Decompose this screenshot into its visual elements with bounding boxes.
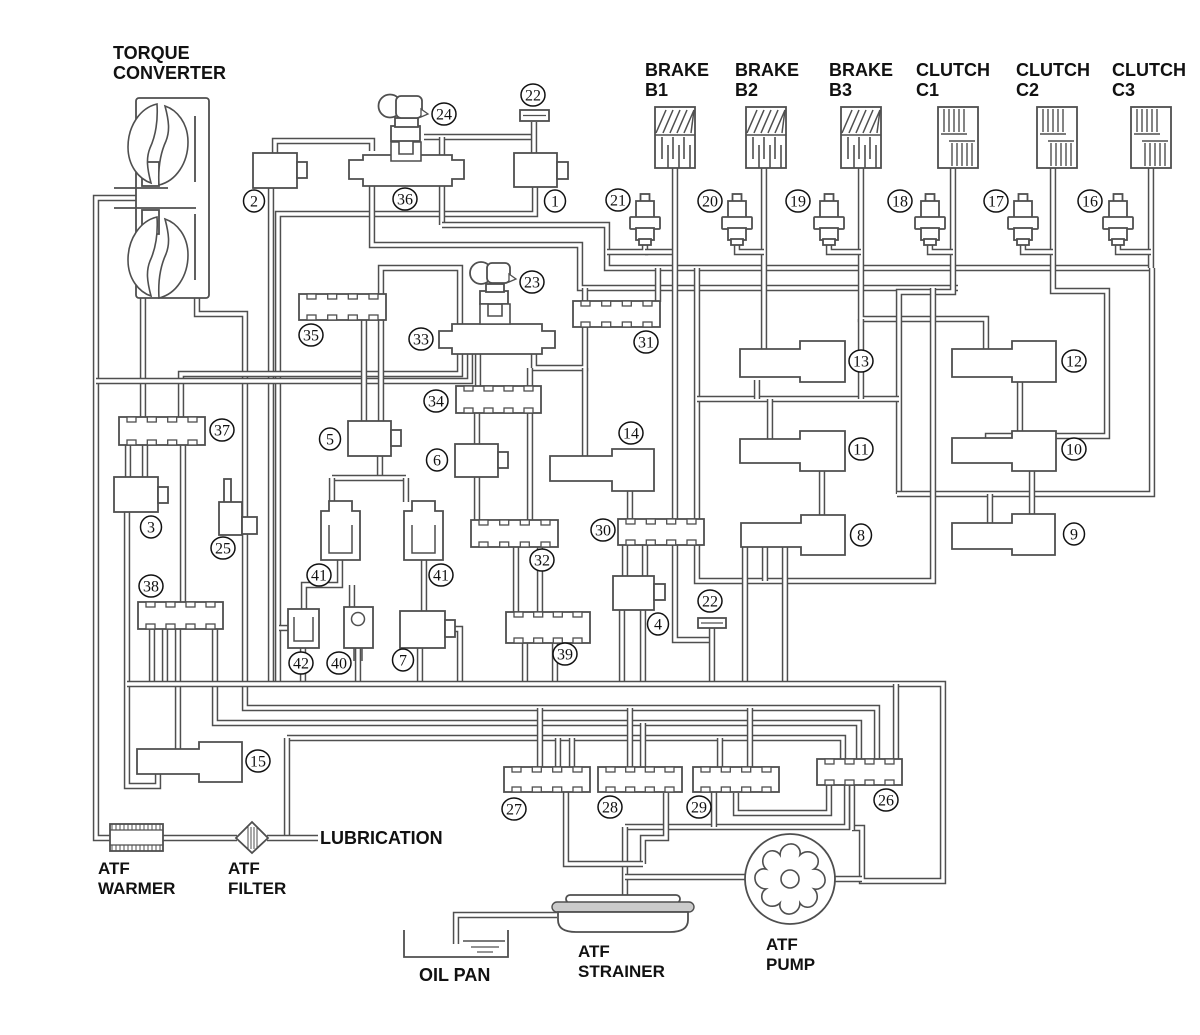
svg-text:CLUTCH: CLUTCH bbox=[1016, 60, 1090, 80]
wire valve 28 to strainer line bbox=[643, 793, 666, 864]
valve 10 bbox=[952, 431, 1056, 471]
label 7 bbox=[393, 649, 414, 671]
svg-text:C2: C2 bbox=[1016, 80, 1039, 100]
svg-text:12: 12 bbox=[1066, 354, 1082, 371]
svg-text:32: 32 bbox=[534, 553, 550, 570]
wire bottom bus and pump loop bbox=[127, 684, 943, 881]
svg-text:28: 28 bbox=[602, 800, 618, 817]
wire valve 35 to valve 5 (b) bbox=[378, 320, 384, 422]
wire valve 38 to bottom bus (a) bbox=[149, 628, 155, 684]
wire valve 30 to orifice 22 bbox=[675, 544, 712, 640]
wire valve 39 to bottom bus (a) bbox=[522, 642, 528, 684]
wire bus to valve 27 (b) bbox=[555, 738, 561, 768]
wire bus to valve 26 (right) bbox=[893, 684, 899, 760]
wire valve 7 to bottom bus bbox=[417, 647, 423, 684]
wire bus to valve 29 (a) bbox=[717, 738, 723, 768]
svg-text:ATF: ATF bbox=[766, 935, 798, 954]
label 1 bbox=[545, 190, 566, 212]
svg-text:35: 35 bbox=[303, 328, 319, 345]
clutch C3 pack bbox=[1131, 107, 1171, 168]
wire valve 4 to bottom bus (b) bbox=[640, 609, 646, 684]
wire valve 35 to valve 37 bbox=[181, 268, 460, 418]
valve 6 bbox=[455, 444, 498, 477]
svg-text:6: 6 bbox=[433, 453, 441, 470]
orifice 22 (top) bbox=[520, 110, 549, 121]
wire valve 38 to bottom bus (b) bbox=[162, 628, 168, 684]
label 11 bbox=[849, 438, 873, 460]
svg-text:10: 10 bbox=[1066, 442, 1082, 459]
svg-text:CLUTCH: CLUTCH bbox=[1112, 60, 1186, 80]
valve 7 bbox=[400, 611, 445, 648]
svg-text:22: 22 bbox=[702, 594, 718, 611]
valve 27 bbox=[504, 767, 590, 792]
wire check valve 19 stub bbox=[829, 244, 861, 252]
wire valve 38 to valve 26 (bus C) bbox=[215, 628, 859, 760]
svg-text:31: 31 bbox=[638, 335, 654, 352]
svg-text:23: 23 bbox=[524, 275, 540, 292]
wire feed accumulator 41 right bbox=[403, 478, 409, 502]
wire solenoid 24 branch down bbox=[439, 137, 445, 225]
label 5 bbox=[320, 428, 341, 450]
wire valve 10 to valve 9 bbox=[1029, 470, 1035, 515]
wire bus to valve 28 (b) bbox=[640, 723, 646, 768]
wire check valve 17 stub bbox=[1023, 244, 1053, 252]
wire pressure bus to valve 31 (right) bbox=[655, 268, 661, 302]
wire valve 37 to valve 3 (a) bbox=[125, 444, 131, 478]
valve 4 bbox=[613, 576, 654, 610]
wire valve 6 to valve 32 bbox=[474, 476, 480, 521]
label 39 bbox=[553, 643, 577, 665]
svg-text:FILTER: FILTER bbox=[228, 879, 286, 898]
wire valve 31 junction to valve 14 bbox=[582, 368, 588, 457]
svg-text:15: 15 bbox=[250, 754, 266, 771]
wire strainer to pump bbox=[625, 874, 747, 880]
wire ATF filter to lubrication bbox=[267, 835, 318, 841]
label 19 bbox=[786, 190, 810, 212]
wire check valve 18 stub bbox=[930, 244, 953, 252]
wire valve 8 to bottom bus bbox=[742, 546, 748, 684]
wire torque-converter outlet to valve 26 (bus) bbox=[197, 297, 877, 760]
label 4 bbox=[648, 613, 669, 635]
label 10 bbox=[1062, 438, 1086, 460]
wire ATF warmer to filter bbox=[162, 835, 237, 841]
valve 1 bbox=[514, 153, 557, 187]
label 8 bbox=[851, 524, 872, 546]
svg-text:3: 3 bbox=[147, 520, 155, 537]
wire clutch C2 line bbox=[988, 166, 1107, 440]
wire check valve 21 stub bbox=[607, 244, 645, 252]
wire valve 26 to valve 29 bbox=[736, 784, 829, 813]
solenoid 24 bbox=[391, 126, 420, 141]
svg-text:2: 2 bbox=[250, 194, 258, 211]
brake B3 pack bbox=[841, 107, 881, 168]
valve 15 bbox=[137, 742, 242, 782]
wire valve 32 to valve 39 (a) bbox=[513, 546, 519, 613]
wire secondary bus to valve 31 (left) bbox=[582, 288, 588, 302]
svg-text:25: 25 bbox=[215, 541, 231, 558]
wire valve 34 to valve 6 bbox=[474, 412, 480, 445]
svg-text:30: 30 bbox=[595, 523, 611, 540]
label 22 bbox=[698, 590, 722, 612]
valve 36 bbox=[349, 155, 464, 186]
label 16 bbox=[1078, 190, 1102, 212]
valve 29 bbox=[693, 767, 779, 792]
ATF pump bbox=[745, 834, 835, 924]
label 30 bbox=[591, 519, 615, 541]
wire torque-converter outlet to valve 37 bbox=[140, 297, 146, 418]
label 42 bbox=[289, 652, 313, 674]
svg-text:BRAKE: BRAKE bbox=[645, 60, 709, 80]
label 2 bbox=[244, 190, 265, 212]
wire torque-converter to ATF warmer (left vertical) bbox=[96, 198, 148, 838]
svg-text:21: 21 bbox=[610, 193, 626, 210]
label 26 bbox=[874, 789, 898, 811]
svg-text:C3: C3 bbox=[1112, 80, 1135, 100]
label 34 bbox=[424, 390, 448, 412]
label 41 bbox=[307, 564, 331, 586]
svg-text:1: 1 bbox=[551, 194, 559, 211]
wire feed valve 9 bbox=[987, 494, 993, 524]
wire bus to valve 28 (a) bbox=[627, 708, 633, 768]
valve 32 bbox=[471, 520, 558, 547]
wire check valve 16 stub bbox=[1118, 244, 1151, 252]
accumulator 41 (left) bbox=[321, 501, 360, 560]
wire orifice 22 stem bbox=[531, 122, 537, 154]
svg-text:22: 22 bbox=[525, 88, 541, 105]
label 31 bbox=[634, 331, 658, 353]
valve 30 bbox=[618, 519, 704, 545]
wire valve 13 bottom stub bbox=[754, 380, 760, 399]
ATF warmer bbox=[110, 824, 163, 851]
wire valve 26 to pump bbox=[849, 784, 855, 830]
svg-text:16: 16 bbox=[1082, 194, 1098, 211]
orifice 22 (lower) bbox=[698, 618, 726, 628]
wire valve 12 to valve 10 bbox=[1017, 381, 1023, 432]
svg-text:18: 18 bbox=[892, 194, 908, 211]
wire valve 27 to strainer line bbox=[566, 792, 643, 864]
check valve 17 bbox=[1019, 194, 1028, 202]
valve 2 bbox=[253, 153, 297, 188]
wire feed accumulator 41 left bbox=[329, 478, 335, 502]
valve 26 bbox=[817, 759, 902, 785]
svg-text:WARMER: WARMER bbox=[98, 879, 175, 898]
svg-text:17: 17 bbox=[988, 194, 1004, 211]
valve 39 bbox=[506, 612, 590, 643]
svg-text:29: 29 bbox=[691, 800, 707, 817]
check valve 20 bbox=[733, 194, 742, 202]
check valve 18 bbox=[926, 194, 935, 202]
wire valve 30 to valve 4 (a) bbox=[622, 544, 628, 577]
wire bus to valve 27 (c) bbox=[569, 738, 575, 768]
label 25 bbox=[211, 537, 235, 559]
label 12 bbox=[1062, 350, 1086, 372]
svg-text:39: 39 bbox=[557, 647, 573, 664]
valve 40 bbox=[344, 607, 373, 648]
svg-text:ATF: ATF bbox=[98, 859, 130, 878]
label 29 bbox=[687, 796, 711, 818]
wire accumulator feed manifold bbox=[332, 475, 406, 481]
valve 3 bbox=[114, 477, 158, 512]
brake B1 pack bbox=[655, 107, 695, 168]
wire valve 30 to valve 4 (b) bbox=[642, 544, 648, 577]
label 41 bbox=[429, 564, 453, 586]
valve 13 bbox=[740, 341, 845, 382]
accumulator 41 (right) bbox=[404, 501, 443, 560]
ATF filter bbox=[236, 822, 268, 853]
label 20 bbox=[698, 190, 722, 212]
svg-text:26: 26 bbox=[878, 793, 894, 810]
svg-text:CONVERTER: CONVERTER bbox=[113, 63, 226, 83]
svg-text:9: 9 bbox=[1070, 527, 1078, 544]
label 21 bbox=[606, 189, 630, 211]
svg-text:19: 19 bbox=[790, 194, 806, 211]
label 40 bbox=[327, 652, 351, 674]
wire valve 38 to valve 15 bbox=[175, 628, 181, 750]
svg-text:11: 11 bbox=[853, 442, 868, 459]
wire valve 4 to bottom bus (a) bbox=[619, 609, 625, 684]
svg-text:24: 24 bbox=[436, 107, 452, 124]
valve 11 bbox=[740, 431, 845, 471]
wire bus to valve 27 (a) bbox=[537, 708, 543, 768]
label 33 bbox=[409, 328, 433, 350]
wire main line to pressure bus bbox=[442, 225, 1152, 268]
svg-text:CLUTCH: CLUTCH bbox=[916, 60, 990, 80]
label 18 bbox=[888, 190, 912, 212]
valve 12 bbox=[952, 341, 1056, 382]
label 24 bbox=[432, 103, 456, 125]
valve 37 bbox=[119, 417, 205, 445]
svg-text:STRAINER: STRAINER bbox=[578, 962, 665, 981]
wire valve 14 to valve 30 bbox=[627, 490, 633, 520]
wire valve 33 junction to valve 32 bbox=[527, 368, 533, 521]
wire accumulator 41 to valve 40 bbox=[349, 585, 355, 608]
label 13 bbox=[849, 350, 873, 372]
valve 38 bbox=[138, 602, 223, 629]
svg-text:8: 8 bbox=[857, 528, 865, 545]
svg-text:ATF: ATF bbox=[578, 942, 610, 961]
valve 35 bbox=[299, 294, 386, 320]
valve 42 bbox=[288, 609, 319, 648]
wire valve 37 to valve 38 bbox=[180, 444, 186, 603]
wire valve 29 to strainer line bbox=[711, 792, 717, 827]
svg-text:B2: B2 bbox=[735, 80, 758, 100]
wire oil pan to strainer bbox=[456, 915, 557, 944]
wire valve 5 to accumulators 41 bbox=[377, 455, 383, 478]
svg-text:4: 4 bbox=[654, 617, 662, 634]
wire valve 37 to valve 3 (b) bbox=[142, 444, 148, 478]
label 6 bbox=[427, 449, 448, 471]
valve 14 bbox=[550, 449, 654, 491]
wire valve 7 tab down bbox=[448, 629, 460, 684]
ATF strainer bbox=[566, 895, 680, 903]
wire brake B3 junction drop bbox=[858, 319, 864, 399]
wire brake B1 line to valve 30 bbox=[672, 166, 678, 520]
wire brake B3 line to valve 12 bbox=[861, 166, 986, 350]
wire bus to valve 29 (b) bbox=[747, 708, 753, 768]
check valve 21 bbox=[641, 194, 650, 202]
wire valve 1 down to bottom bus bbox=[278, 187, 535, 684]
svg-text:33: 33 bbox=[413, 332, 429, 349]
wire valve 42 to bottom bus bbox=[300, 647, 306, 684]
label 23 bbox=[520, 271, 544, 293]
label 28 bbox=[598, 796, 622, 818]
wire valve 32 to valve 39 (b) bbox=[537, 546, 543, 613]
wire valve 33 to valve 34 bbox=[475, 353, 481, 387]
wire clutch C3 line bbox=[1148, 166, 1154, 268]
wire clutch C3 to valve 9 bbox=[897, 268, 1152, 494]
wire lubrication bus to valve 26 bbox=[287, 738, 843, 760]
svg-text:PUMP: PUMP bbox=[766, 955, 815, 974]
svg-text:BRAKE: BRAKE bbox=[829, 60, 893, 80]
wire valve 8 to pump loop bbox=[782, 546, 788, 684]
wire clutch C1 line bbox=[899, 166, 953, 494]
svg-text:BRAKE: BRAKE bbox=[735, 60, 799, 80]
wire orifice 22 to bottom bus bbox=[709, 628, 715, 684]
label 36 bbox=[393, 188, 417, 210]
svg-text:7: 7 bbox=[399, 653, 407, 670]
wire valve 26 to strainer line bbox=[625, 784, 847, 827]
svg-text:C1: C1 bbox=[916, 80, 939, 100]
wire valve 3 to valve 15 bbox=[127, 511, 158, 786]
valve 25 bbox=[224, 479, 231, 503]
svg-text:13: 13 bbox=[853, 354, 869, 371]
svg-text:36: 36 bbox=[397, 192, 413, 209]
label 14 bbox=[619, 422, 643, 444]
wire valve 36 to secondary bus bbox=[372, 186, 958, 288]
svg-text:OIL PAN: OIL PAN bbox=[419, 965, 490, 985]
wire strainer stem bbox=[622, 827, 628, 897]
label 3 bbox=[141, 516, 162, 538]
wire pressure bus drop to valve 30 bbox=[694, 268, 700, 520]
svg-text:41: 41 bbox=[433, 568, 449, 585]
brake B2 pack bbox=[746, 107, 786, 168]
wire solenoid 24 to valve 22/1 bbox=[424, 134, 534, 140]
torque converter bbox=[136, 98, 209, 298]
wire valve 2 down to bottom bus bbox=[268, 187, 274, 684]
svg-text:41: 41 bbox=[311, 568, 327, 585]
svg-text:42: 42 bbox=[293, 656, 309, 673]
check valve 16 bbox=[1114, 194, 1123, 202]
oil pan bbox=[404, 930, 508, 957]
label 27 bbox=[502, 798, 526, 820]
wire valve 30 right to bus bbox=[697, 288, 933, 581]
wire valve 2 to valve 36 (top) bbox=[275, 141, 372, 154]
wire accumulator 41b to valve 7 bbox=[421, 559, 427, 612]
clutch C2 pack bbox=[1037, 107, 1077, 168]
svg-text:27: 27 bbox=[506, 802, 522, 819]
svg-text:LUBRICATION: LUBRICATION bbox=[320, 828, 443, 848]
label 35 bbox=[299, 324, 323, 346]
wire branch to valve 8 arm bbox=[762, 547, 768, 581]
wire valve 35 to valve 5 (a) bbox=[361, 320, 367, 422]
svg-text:TORQUE: TORQUE bbox=[113, 43, 190, 63]
wire valve 40 to bottom bus bbox=[355, 647, 361, 684]
clutch C1 pack bbox=[938, 107, 978, 168]
label 15 bbox=[246, 750, 270, 772]
valve 34 bbox=[456, 386, 541, 413]
wire branch to valve 11 bbox=[767, 399, 773, 440]
svg-text:37: 37 bbox=[214, 423, 230, 440]
solenoid 23 bbox=[480, 291, 508, 304]
wire valve 39 to bottom bus (b) bbox=[552, 642, 558, 684]
valve 8 bbox=[741, 515, 845, 555]
wire valve 42 stub bbox=[279, 625, 289, 631]
svg-text:14: 14 bbox=[623, 426, 639, 443]
label 38 bbox=[139, 575, 163, 597]
label 17 bbox=[984, 190, 1008, 212]
wire pump outlet bbox=[833, 876, 862, 882]
svg-text:20: 20 bbox=[702, 194, 718, 211]
label 22 bbox=[521, 84, 545, 106]
label 9 bbox=[1064, 523, 1085, 545]
svg-text:ATF: ATF bbox=[228, 859, 260, 878]
svg-text:40: 40 bbox=[331, 656, 347, 673]
wire lubrication drop bbox=[284, 738, 290, 838]
svg-text:B1: B1 bbox=[645, 80, 668, 100]
svg-text:38: 38 bbox=[143, 579, 159, 596]
valve 33 bbox=[439, 324, 555, 354]
valve 28 bbox=[598, 767, 682, 792]
wire manifold y399 bbox=[697, 396, 899, 402]
wire check valve 21 to brake B1 line bbox=[645, 249, 675, 255]
valve 31 bbox=[573, 301, 660, 327]
wire brake B2 line to valve 13 bbox=[761, 166, 767, 350]
svg-text:34: 34 bbox=[428, 394, 444, 411]
check valve 19 bbox=[825, 194, 834, 202]
svg-text:B3: B3 bbox=[829, 80, 852, 100]
wire valve 33 to left line bbox=[96, 353, 470, 381]
label 37 bbox=[210, 419, 234, 441]
wire valve 11 to valve 8 bbox=[819, 470, 825, 516]
wire valve 31 to valve 33 bbox=[534, 324, 585, 368]
wire accumulator 41 to valve 42 bbox=[304, 559, 340, 610]
svg-text:5: 5 bbox=[326, 432, 334, 449]
label 32 bbox=[530, 549, 554, 571]
wire check valve 20 stub bbox=[737, 244, 764, 252]
valve 5 bbox=[348, 421, 391, 456]
valve 9 bbox=[952, 514, 1055, 555]
